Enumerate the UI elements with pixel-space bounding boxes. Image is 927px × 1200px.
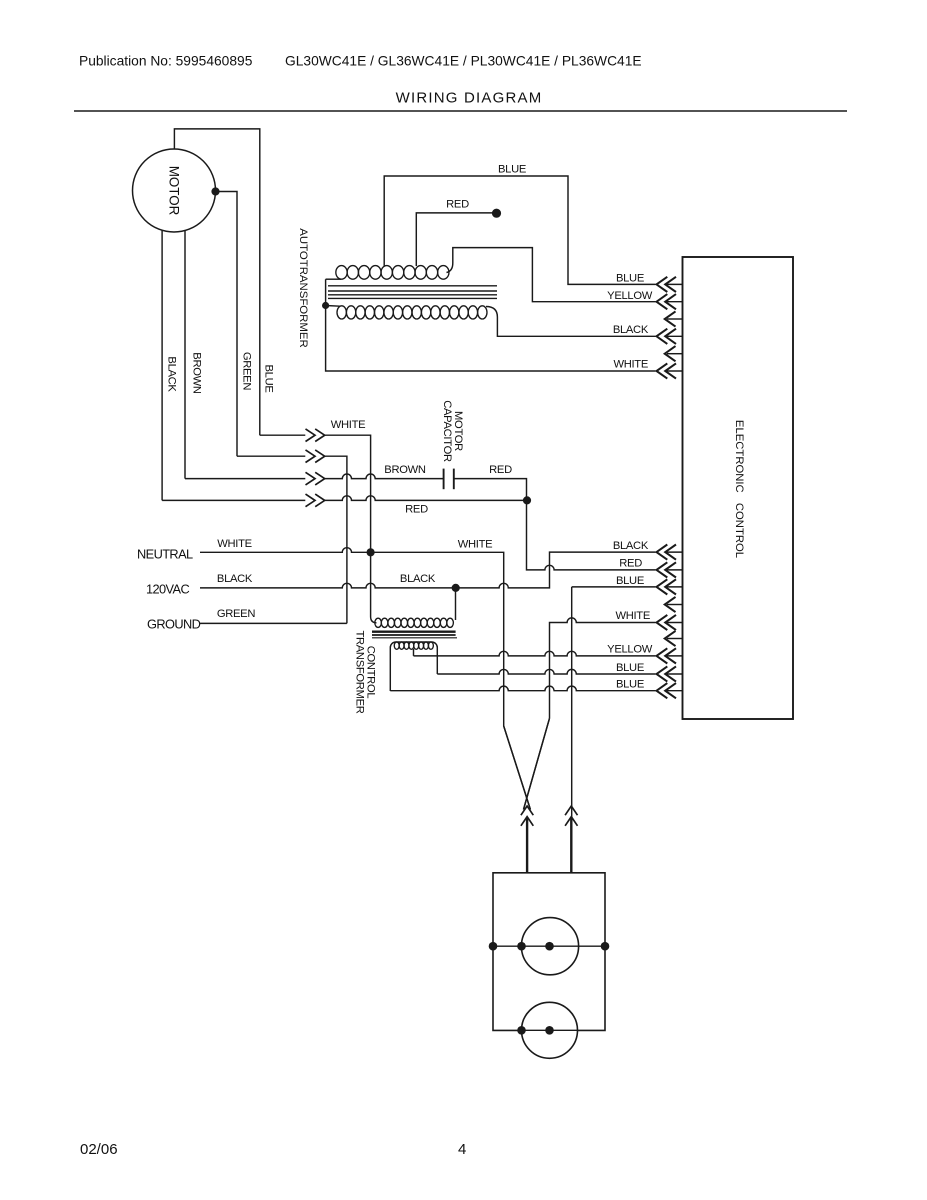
wire row 2 right segment, down to ground row [325,456,347,623]
svg-text:NEUTRAL: NEUTRAL [137,547,193,562]
svg-text:BLUE: BLUE [498,164,526,176]
pin arrow stub (upper, unlabeled) [667,318,683,320]
title underline [74,110,847,112]
wire blue tap: up from top coil, across top, down to BLUE arrow row [384,176,655,284]
svg-text:02/06: 02/06 [80,1141,118,1158]
svg-text:GREEN: GREEN [217,608,256,620]
wire motor blue: top of motor up, right, down to plug row 1 [174,129,259,435]
pin arrow YELLOW (lower) [666,655,683,657]
connector chevrons left (pointing up) [521,806,533,815]
svg-text:RED: RED [405,504,428,516]
svg-text:GROUND: GROUND [147,617,201,632]
lamp L1 upper circle [521,918,578,975]
svg-text:BLACK: BLACK [400,573,436,585]
connector crossing wires X [504,718,550,809]
wire red from capacitor right plate, down to junction, to RED arrow row (hop over black vertical) [454,479,656,570]
wire blue row from secondary right end with hops [437,669,655,674]
control transformer core lines [372,631,456,633]
wire motor green: right dot, right, down to plug row 2 [216,192,238,457]
wire yellow row from secondary tap with hops [414,651,656,656]
wire plug row 2 (green) left segment [237,455,305,457]
wire autotransformer left vertical (with junction) down to white row [326,279,656,371]
svg-text:BLACK: BLACK [217,573,253,585]
electronic control U1 box [683,257,794,719]
autotransformer bottom coil [337,306,346,319]
svg-text:GL30WC41E / GL36WC41E / PL30WC: GL30WC41E / GL36WC41E / PL30WC41E / PL36… [285,54,642,69]
wire secondary center tap down to yellow row [413,649,415,656]
svg-text:BLUE: BLUE [616,662,644,674]
svg-text:BROWN: BROWN [384,464,426,476]
pin arrow stub 4 (lower, unlabeled) [667,638,683,640]
pin arrow YELLOW (upper) [666,301,683,303]
svg-text:WHITE: WHITE [613,359,648,371]
capacitor C1 (motor capacitor) plates [443,469,445,490]
pin arrow BLUE3 (lower) [666,690,683,692]
node red junction dot [523,496,531,504]
svg-text:BLUE: BLUE [263,364,275,392]
svg-text:BROWN: BROWN [191,352,203,394]
wire plug row 3 (brown) left segment [185,478,305,480]
wire primary right end up to 120VAC junction [455,588,457,620]
node autotransformer left junction dot [322,302,329,309]
motor M1 circle [133,149,216,232]
svg-text:WHITE: WHITE [331,419,366,431]
node dots lower lamp row [517,1026,526,1035]
wire ground green row [200,622,347,624]
svg-text:MOTOR: MOTOR [167,166,182,216]
svg-text:CAPACITOR: CAPACITOR [441,400,453,462]
pin arrow BLACK (upper) [666,335,683,337]
wire row 1 right segment, down to neutral junction and control transformer primary left [325,435,377,623]
connector chevrons row 3 [306,472,316,485]
wire through upper lamp [493,945,605,947]
pin arrow BLUE2 (lower) [666,673,683,675]
svg-text:ELECTRONIC CONTROL: ELECTRONIC CONTROL [733,420,745,558]
wire connector left lead into receptacle [526,818,528,874]
wire 120VAC black row: hops verticals, dot at transformer primary, corner at black-arrow vertical [200,552,656,588]
node red splice dot [492,209,501,218]
svg-text:BLUE: BLUE [616,273,644,285]
svg-text:AUTOTRANSFORMER: AUTOTRANSFORMER [297,228,309,347]
autotransformer top coil [336,266,347,280]
wire neutral white row: hops green vertical, dot at white vertical, corner down to bottom connector X [200,548,530,810]
pin arrow BLUE (lower) [666,586,683,588]
wire black: bottom coil right end down, right to BLACK arrow row [486,307,656,337]
wire plug row 4 (black) left segment [162,499,305,501]
wire white row: corner, hop over blue vertical, vertical down, slant to X crossing [524,618,656,810]
wire row 4 to red junction (hops over verticals) [325,496,527,501]
wire connector right lead into receptacle [570,818,572,874]
pin arrow stub 3 (lower, unlabeled) [667,604,683,606]
svg-text:YELLOW: YELLOW [607,290,653,302]
svg-text:BLACK: BLACK [613,540,649,552]
svg-text:WHITE: WHITE [217,538,252,550]
wire row 3 to motor capacitor (hops over verticals) [325,474,444,479]
connector chevrons row 4 [306,494,316,507]
control transformer secondary coil [394,642,399,649]
svg-text:WIRING DIAGRAM: WIRING DIAGRAM [396,90,543,107]
node motor right terminal dot [211,187,219,195]
svg-text:4: 4 [458,1141,466,1158]
wire motor black: bottom of motor down to plug row 4 [161,230,163,500]
wire blue row corner down to bottom connector right [572,587,656,873]
pin arrow BLACK (lower) [666,551,683,553]
svg-text:TRANSFORMER: TRANSFORMER [354,630,366,713]
connector chevrons right (pointing up) [565,806,577,815]
wire plug row 1 (white) left segment [260,434,306,436]
autotransformer left end link [326,278,341,280]
node neutral junction dot [367,548,375,556]
pin arrow stub 2 (upper, unlabeled) [667,353,683,355]
svg-text:Publication No: 5995460895: Publication No: 5995460895 [79,54,253,69]
node dots upper lamp row [489,942,498,951]
wire through lower lamp [522,1029,578,1031]
connector chevrons row 2 [306,450,316,463]
lamp L2 lower circle [522,1002,578,1058]
pin arrow BLUE (upper) [666,283,683,285]
svg-text:WHITE: WHITE [458,539,493,551]
control transformer primary coil [375,618,382,627]
pin arrow WHITE (lower) [666,622,683,624]
wire red tap: up from top coil, left-run ends at splice dot [416,213,496,266]
svg-text:BLUE: BLUE [616,679,644,691]
receptacle box outline [493,873,605,1031]
svg-text:BLACK: BLACK [613,324,649,336]
svg-text:BLUE: BLUE [616,575,644,587]
svg-text:BLACK: BLACK [166,356,178,392]
svg-text:YELLOW: YELLOW [607,644,653,656]
svg-text:RED: RED [489,464,512,476]
wire blue row from secondary left end with hops [390,686,655,691]
pin arrow WHITE (upper) [666,370,683,372]
svg-text:WHITE: WHITE [615,610,650,622]
wire yellow: top coil right end up, right, down to YELLOW arrow row [447,248,656,302]
svg-text:GREEN: GREEN [241,352,253,391]
svg-text:120VAC: 120VAC [146,582,189,597]
pin arrow RED (lower) [666,569,683,571]
svg-text:RED: RED [446,199,469,211]
connector chevrons row 1 [306,429,316,442]
wire motor brown: bottom of motor down to plug row 3 [184,231,186,479]
node 120VAC-primary junction dot [452,584,460,592]
autotransformer bottom coil left link to junction [326,305,340,308]
autotransformer core lines [328,285,497,287]
svg-text:RED: RED [619,558,642,570]
control transformer secondary outline [390,642,437,691]
